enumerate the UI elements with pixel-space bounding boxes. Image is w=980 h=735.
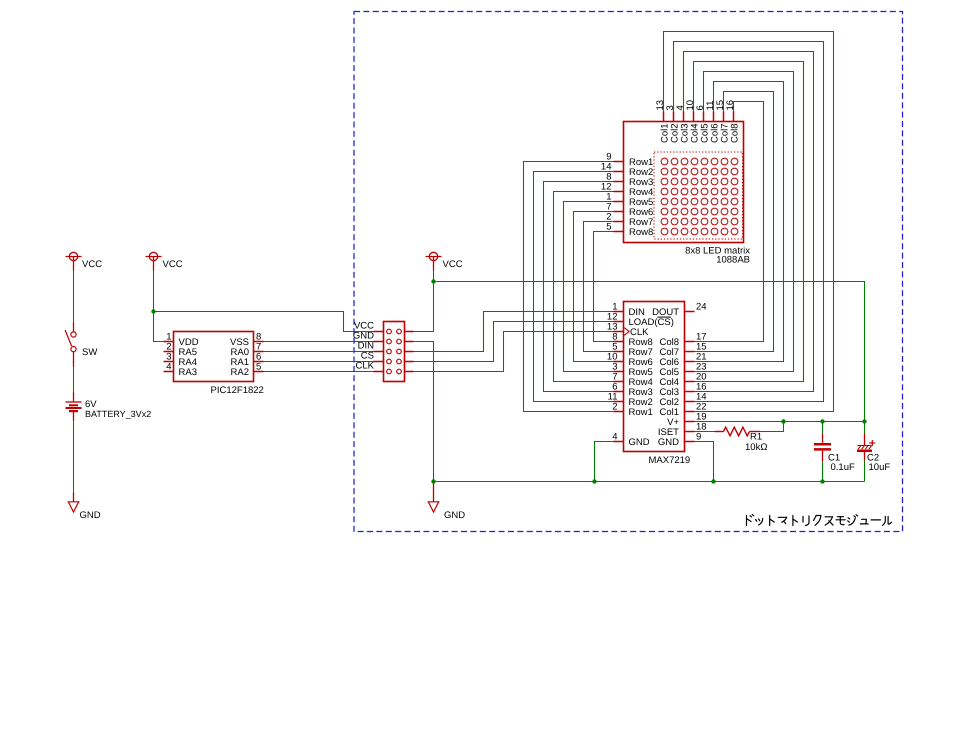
wire CS connector to MAX7219 LOAD bbox=[414, 322, 614, 362]
MAX7219 pin 21 Col6 bbox=[659, 352, 706, 369]
wire Col8 net bbox=[695, 102, 764, 342]
junction node C1 bottom bbox=[820, 479, 824, 483]
svg-text:5: 5 bbox=[606, 222, 611, 233]
wire C2 top lead bbox=[864, 422, 866, 434]
MAX7219 pin 18 ISET bbox=[658, 422, 707, 439]
pin 4 RA3 bbox=[164, 362, 197, 379]
wire Col5 net bbox=[695, 72, 794, 372]
power flag VCC (module side) bbox=[426, 252, 442, 270]
wire Col7 net bbox=[695, 92, 774, 352]
svg-text:0.1uF: 0.1uF bbox=[831, 462, 855, 473]
matrix pin 16 Col8 bbox=[725, 100, 740, 143]
svg-text:GND: GND bbox=[80, 510, 101, 521]
MAX7219 pin 22 Col1 bbox=[659, 402, 706, 419]
svg-text:GND: GND bbox=[444, 510, 465, 521]
matrix pin 8 Row3 bbox=[606, 172, 653, 189]
module boundary box (dot matrix module) bbox=[354, 12, 903, 532]
matrix pin 5 Row8 bbox=[606, 222, 653, 239]
power flag VCC (PIC side) bbox=[146, 252, 162, 270]
svg-text:4: 4 bbox=[166, 362, 171, 373]
svg-text:MAX7219: MAX7219 bbox=[649, 455, 691, 466]
svg-text:Row8: Row8 bbox=[629, 227, 653, 238]
module title (katakana): dot matrix module bbox=[747, 515, 892, 526]
MAX7219 pin 2 Row1 bbox=[612, 402, 653, 419]
resistor R1 bbox=[715, 427, 760, 436]
MAX7219 pin 15 Col7 bbox=[659, 342, 706, 359]
label R1 10kOhm bbox=[745, 432, 767, 454]
matrix pin 7 Row6 bbox=[606, 202, 653, 219]
svg-text:10uF: 10uF bbox=[869, 462, 891, 473]
label C1 0.1uF bbox=[828, 453, 855, 474]
matrix pin 12 Row4 bbox=[601, 182, 653, 199]
wire Col2 net bbox=[674, 42, 824, 402]
MAX7219 pin 12 LOAD(CS) bbox=[607, 312, 674, 329]
IC U1 PIC12F1822 body bbox=[174, 332, 254, 382]
wire Row8 net bbox=[594, 232, 614, 342]
wire VCC stem bbox=[433, 271, 435, 282]
connector pin row CLK bbox=[374, 369, 414, 374]
wire R1 to V+ rail bbox=[760, 422, 784, 432]
wire RA2 to connector CLK bbox=[264, 371, 374, 373]
matrix pin 1 Row5 bbox=[606, 192, 653, 209]
wire C1 top lead bbox=[822, 422, 824, 434]
label 6V BATTERY_3Vx2 bbox=[85, 399, 151, 419]
MAX7219 pin 4 GND bbox=[612, 432, 650, 449]
svg-text:GND: GND bbox=[629, 437, 650, 448]
MAX7219 pin 7 Row4 bbox=[612, 372, 653, 389]
ground symbol (battery) bbox=[68, 492, 78, 512]
wire Col6 net bbox=[695, 82, 784, 362]
LED matrix dotted display area bbox=[654, 152, 743, 239]
connector pin row CS bbox=[374, 359, 414, 364]
wire C2 bottom lead bbox=[864, 461, 866, 482]
wire Row4 net bbox=[554, 192, 614, 382]
pin 7 RA0 bbox=[231, 342, 264, 359]
MAX7219 pin 10 Row6 bbox=[607, 352, 653, 369]
svg-text:4: 4 bbox=[612, 432, 617, 443]
svg-text:RA3: RA3 bbox=[179, 367, 197, 378]
wire connector VCC pin up to rail bbox=[414, 282, 434, 332]
junction node C1 top bbox=[820, 419, 824, 423]
wire VSS to connector GND bbox=[264, 341, 374, 343]
svg-text:16: 16 bbox=[725, 100, 736, 111]
MAX7219 pin 9 GND bbox=[658, 432, 701, 449]
matrix pin 6 Col5 bbox=[695, 105, 710, 143]
MAX7219 pin 1 DIN bbox=[612, 302, 645, 319]
svg-text:2: 2 bbox=[612, 402, 617, 413]
svg-text:5: 5 bbox=[256, 362, 261, 373]
svg-text:SW: SW bbox=[82, 347, 97, 358]
IC U2 MAX7219 body bbox=[624, 302, 685, 452]
wire C1 bottom lead bbox=[822, 461, 824, 482]
svg-text:24: 24 bbox=[696, 302, 707, 313]
wire VCC down to PIC VDD bbox=[154, 271, 164, 342]
svg-text:RA2: RA2 bbox=[231, 367, 249, 378]
junction node VCC rail bbox=[431, 279, 435, 283]
LED matrix dot grid 8x8 bbox=[661, 158, 738, 235]
wire MAX7219 GND pin4 to ground rail bbox=[595, 442, 614, 482]
junction node ground rail left bbox=[431, 479, 435, 483]
MAX7219 pin 3 Row5 bbox=[612, 362, 653, 379]
matrix pin 9 Row1 bbox=[606, 152, 653, 169]
label 8x8 LED matrix 1088AB bbox=[685, 246, 750, 266]
wire switch to battery bbox=[73, 367, 75, 393]
svg-text:10kΩ: 10kΩ bbox=[745, 442, 767, 453]
MAX7219 pin 8 Row8 bbox=[612, 332, 653, 349]
switch SW bbox=[65, 323, 76, 367]
junction node VCC2 bbox=[151, 309, 155, 313]
wire Row2 net bbox=[534, 172, 614, 402]
pin 2 RA5 bbox=[164, 342, 197, 359]
MAX7219 pin 11 Row2 bbox=[608, 392, 653, 409]
junction node R1/V+ bbox=[781, 419, 785, 423]
wire Row1 net bbox=[524, 162, 614, 412]
wire ISET to R1 bbox=[695, 431, 716, 433]
wire VCC rail across module bbox=[434, 282, 865, 422]
svg-text:PIC12F1822: PIC12F1822 bbox=[211, 385, 264, 396]
matrix pin 11 Col6 bbox=[705, 101, 720, 143]
battery BT1 6V BATTERY_3Vx2 bbox=[66, 393, 82, 421]
wire ground rail across module bbox=[434, 481, 865, 483]
LED matrix DS1 1088AB body bbox=[624, 122, 744, 243]
wire Row3 net bbox=[544, 182, 614, 392]
ground symbol (module) bbox=[428, 483, 438, 513]
pin 6 RA1 bbox=[231, 352, 264, 369]
connector J1 2x5 header body bbox=[384, 322, 405, 382]
wire DIN connector to MAX7219 bbox=[414, 312, 614, 352]
wire MAX7219 GND pin9 to ground rail bbox=[695, 442, 714, 482]
svg-text:VCC: VCC bbox=[443, 259, 463, 270]
wire Row7 net bbox=[584, 222, 614, 352]
svg-text:Col8: Col8 bbox=[729, 123, 740, 143]
wire Row5 net bbox=[564, 202, 614, 372]
wire connector GND pin down to ground rail bbox=[414, 342, 434, 482]
matrix pin 14 Row2 bbox=[601, 162, 653, 179]
svg-text:GND: GND bbox=[658, 437, 679, 448]
wire Row6 net bbox=[574, 212, 614, 362]
MAX7219 pin 23 Col5 bbox=[659, 362, 706, 379]
matrix pin 10 Col4 bbox=[685, 100, 700, 143]
wire VCC to switch bbox=[73, 271, 75, 323]
junction node C2 top bbox=[862, 419, 866, 423]
MAX7219 pin 20 Col4 bbox=[659, 372, 706, 389]
MAX7219 pin 24 DOUT bbox=[652, 302, 707, 319]
svg-text:VCC: VCC bbox=[163, 259, 183, 270]
MAX7219 pin 14 Col2 bbox=[659, 392, 706, 409]
MAX7219 pin 6 Row3 bbox=[612, 382, 653, 399]
MAX7219 pin 16 Col3 bbox=[659, 382, 706, 399]
capacitor C1 bbox=[814, 434, 831, 462]
svg-text:CLK: CLK bbox=[356, 361, 375, 372]
pin 8 VSS bbox=[230, 332, 264, 349]
connector pin row GND bbox=[374, 339, 414, 344]
svg-text:1088AB: 1088AB bbox=[716, 255, 750, 266]
MAX7219 pin 13 CLK bbox=[607, 322, 649, 339]
junction node GND4 bbox=[592, 479, 596, 483]
connector pin row DIN bbox=[374, 349, 414, 354]
label C2 10uF bbox=[867, 453, 890, 474]
wire CLK connector to MAX7219 bbox=[414, 332, 614, 372]
matrix pin 3 Col2 bbox=[665, 105, 680, 143]
svg-text:DOUT: DOUT bbox=[652, 307, 679, 318]
capacitor C2 (polarized) bbox=[857, 434, 875, 461]
connector pin row VCC bbox=[374, 329, 414, 334]
wire RA0 to connector DIN bbox=[264, 351, 374, 353]
svg-text:9: 9 bbox=[696, 432, 701, 443]
wire Col3 net bbox=[684, 52, 814, 392]
pin 5 RA2 bbox=[231, 362, 264, 379]
wire VCC branch to connector pin 1 bbox=[154, 312, 374, 332]
matrix pin 2 Row7 bbox=[606, 212, 653, 229]
junction node GND9 bbox=[711, 479, 715, 483]
pin 3 RA4 bbox=[164, 352, 197, 369]
wire Col4 net bbox=[694, 62, 804, 382]
svg-text:VCC: VCC bbox=[82, 259, 102, 270]
power flag VCC (battery side) bbox=[66, 252, 82, 270]
wire V+ pin to supply bbox=[695, 421, 865, 423]
pin 1 VDD bbox=[164, 332, 199, 349]
MAX7219 pin 19 V+ bbox=[667, 412, 706, 429]
wire battery to ground bbox=[73, 421, 75, 493]
wire Col1 net bbox=[664, 32, 834, 412]
matrix pin 4 Col3 bbox=[675, 105, 690, 143]
svg-text:Row1: Row1 bbox=[629, 407, 653, 418]
svg-text:R1: R1 bbox=[750, 432, 762, 443]
svg-text:BATTERY_3Vx2: BATTERY_3Vx2 bbox=[85, 409, 151, 419]
wire RA1 to connector CS bbox=[264, 361, 374, 363]
matrix pin 13 Col1 bbox=[655, 100, 670, 143]
MAX7219 pin 17 Col8 bbox=[659, 332, 706, 349]
MAX7219 pin 5 Row7 bbox=[612, 342, 653, 359]
matrix pin 15 Col7 bbox=[715, 100, 730, 143]
